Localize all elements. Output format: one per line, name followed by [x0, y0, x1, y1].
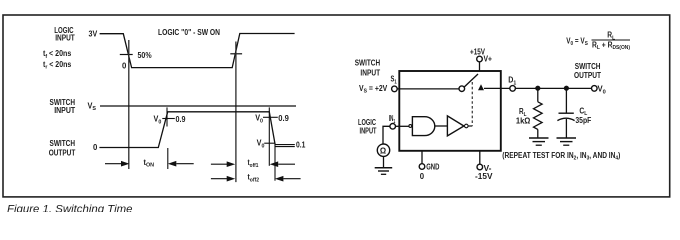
arrow tON right [168, 161, 194, 167]
node 50% tick rising edge [230, 53, 242, 55]
wire source to ground [383, 156, 385, 167]
caption Figure 1. Switching Time [7, 203, 133, 215]
svg-text:0.9: 0.9 [176, 115, 187, 124]
label toff2 [248, 173, 260, 184]
label V0 (falling 0.9) [255, 114, 263, 125]
node 0.1 tick [264, 142, 275, 144]
label 0.9 (rising) [176, 115, 187, 124]
wire GND stem [421, 151, 423, 164]
svg-text:0.9: 0.9 [278, 114, 289, 123]
label LOGIC INPUT (schematic) [358, 118, 377, 136]
terminal IN1 [390, 124, 396, 130]
terminal V+ [477, 56, 483, 62]
wire 0.9 rising extension line [167, 148, 169, 169]
wire inverter to dashed line [468, 125, 472, 127]
svg-text:INPUT: INPUT [360, 69, 380, 78]
wire toff2 reference line [274, 144, 276, 181]
wire VS level line [100, 105, 296, 107]
arrow toff2 left [211, 176, 235, 182]
node 0.9 cross falling edge [263, 107, 278, 165]
wire vertical reference line B [235, 42, 237, 183]
svg-text:INPUT: INPUT [360, 127, 377, 136]
label D1 [508, 76, 516, 87]
node 50% tick falling edge [120, 54, 133, 56]
label toff1 [248, 158, 259, 169]
label 0.1 [296, 141, 306, 150]
label CL 35pF [575, 106, 591, 125]
dashed actuator line [471, 82, 473, 126]
svg-text:SWITCH: SWITCH [355, 58, 381, 67]
label V+ [484, 54, 493, 63]
svg-text:SWITCH: SWITCH [50, 139, 76, 148]
wire CL branch top [565, 88, 567, 113]
svg-text:GND: GND [426, 163, 439, 172]
node 0.9 cross rising edge [162, 107, 175, 126]
source generator (Ω) [377, 144, 389, 156]
label V0 output [598, 85, 606, 96]
svg-text:35pF: 35pF [575, 116, 591, 125]
label SWITCH OUTPUT (timing) [49, 139, 76, 158]
IC box [399, 71, 501, 151]
node junction RL [535, 86, 540, 91]
svg-text:INPUT: INPUT [54, 106, 75, 115]
svg-text:0: 0 [93, 143, 98, 152]
wire D1 to output [515, 87, 591, 89]
svg-text:0.1: 0.1 [296, 141, 306, 150]
wire S1 to switch pivot [397, 88, 459, 90]
svg-text:3V: 3V [89, 29, 98, 38]
wire IN1 into box [396, 125, 409, 127]
wire V+ stem [479, 62, 481, 71]
ground RL [529, 138, 549, 145]
wire vertical reference line A [128, 40, 130, 169]
wire V- stem [479, 151, 481, 164]
label repeat test note [502, 151, 620, 162]
wire switch output waveform [99, 112, 275, 148]
svg-text:OUTPUT: OUTPUT [574, 71, 601, 80]
switch S1 arm [464, 74, 478, 87]
label tr < 20ns [43, 60, 72, 71]
label tON [144, 158, 155, 169]
wire RL to ground [537, 129, 539, 137]
equation V0 = VS RL/(RL+RDS(ON)) [566, 31, 630, 52]
label LOGIC "0" - SW ON [158, 28, 220, 37]
label RL 1kΩ [516, 107, 531, 125]
capacitor CL [557, 113, 574, 120]
svg-text:LOGIC "0" - SW ON: LOGIC "0" - SW ON [158, 28, 220, 37]
wire CL to ground [565, 119, 567, 138]
label SWITCH OUTPUT (schematic) [574, 62, 601, 80]
label GND 0 [420, 163, 440, 181]
svg-text:SWITCH: SWITCH [575, 62, 601, 71]
wire RL branch top [537, 88, 539, 102]
terminal V- [477, 164, 483, 170]
label SWITCH INPUT (schematic) [355, 58, 381, 77]
resistor RL [534, 102, 543, 130]
svg-text:1kΩ: 1kΩ [516, 116, 531, 125]
label 3V [89, 29, 98, 38]
svg-text:Ω: Ω [380, 146, 386, 155]
label S1 [391, 75, 397, 86]
label SWITCH INPUT (timing) [50, 98, 76, 115]
label V- -15V [475, 164, 493, 181]
label 50% [138, 51, 152, 60]
svg-text:OUTPUT: OUTPUT [49, 148, 76, 157]
terminal S1 [392, 86, 398, 92]
terminal D1 [510, 86, 516, 92]
arrow toff1 right [270, 161, 295, 167]
gate AND U1 [412, 117, 434, 136]
ground CL [557, 138, 577, 145]
svg-text:LOGIC: LOGIC [358, 118, 376, 127]
label VS = +2V [359, 84, 388, 95]
label LOGIC INPUT (timing) [54, 26, 75, 43]
gate inverter U2 [447, 116, 464, 136]
svg-text:50%: 50% [138, 51, 152, 60]
label 0 (switch output low) [93, 143, 98, 152]
arrow toff1 left [211, 161, 235, 167]
label V0 (rising 0.9) [154, 115, 162, 126]
svg-text:INPUT: INPUT [55, 34, 75, 43]
wire switch to D1 [484, 87, 510, 89]
label IN1 [389, 114, 396, 125]
svg-text:0: 0 [420, 172, 425, 181]
switch actuator arrowhead [478, 84, 484, 90]
switch S1 pivot [459, 86, 465, 92]
node AND input bubble [409, 125, 412, 128]
terminal GND [419, 164, 425, 170]
wire IN1 to source [383, 126, 390, 144]
arrow toff2 right [275, 176, 301, 182]
arrow tON left [105, 161, 130, 167]
node junction CL [564, 86, 569, 91]
ground source [375, 168, 393, 175]
node inverter output bubble [465, 124, 469, 128]
label tf < 20ns [43, 49, 72, 60]
svg-text:V+: V+ [484, 54, 493, 63]
label +15V [470, 47, 486, 56]
terminal V0 output [592, 86, 598, 92]
svg-text:0: 0 [122, 61, 127, 70]
wire AND to inverter [435, 125, 448, 127]
label V0 (0.1 level) [257, 139, 265, 150]
label 0 (logic low) [122, 61, 127, 70]
svg-text:Figure 1. Switching Time: Figure 1. Switching Time [7, 203, 133, 212]
label VS [88, 101, 97, 112]
label 0.9 (falling) [278, 114, 289, 123]
svg-text:-15V: -15V [475, 172, 493, 181]
wire logic input waveform [100, 34, 295, 68]
wire 0.1 double level line [275, 145, 295, 147]
